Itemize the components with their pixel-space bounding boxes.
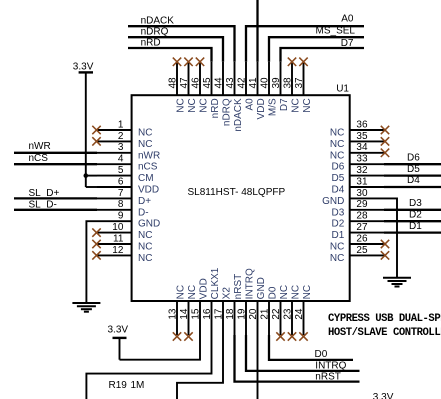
- pin 19 (INTRQ) bottom: [237, 268, 256, 335]
- svg-text:D3: D3: [332, 207, 345, 218]
- svg-text:nRD: nRD: [210, 98, 221, 118]
- wire nWR to pin 3: [14, 141, 97, 153]
- svg-text:9: 9: [118, 211, 124, 222]
- wire VDD pin 41 to top power (cut off): [256, 0, 258, 62]
- wire pin 20 GND to ground (cut off): [257, 335, 259, 399]
- pin 21 (D0) bottom: [260, 286, 279, 335]
- svg-text:39: 39: [271, 77, 282, 89]
- pin 1 (NC) left: [92, 119, 152, 138]
- wire 3.3V to pin 15 VDD: [120, 335, 201, 360]
- pin 26 (NC) right: [330, 233, 389, 252]
- svg-text:CM: CM: [138, 173, 154, 184]
- pin 46 (NC) top: [191, 58, 210, 113]
- svg-text:D5: D5: [407, 164, 420, 175]
- pin 4 (nCS) left: [97, 154, 158, 173]
- pin 6 (VDD) left: [97, 176, 159, 195]
- svg-text:VDD: VDD: [256, 98, 267, 119]
- svg-text:5: 5: [118, 165, 124, 176]
- svg-text:10: 10: [112, 222, 124, 233]
- pin 37 (NC) top: [294, 58, 313, 113]
- pin 12 (NC) left: [92, 245, 152, 264]
- wire D6 from pin: [384, 152, 441, 164]
- svg-text:19: 19: [237, 308, 248, 320]
- svg-text:D4: D4: [332, 185, 345, 196]
- svg-text:nWR: nWR: [29, 141, 51, 152]
- pin 41 (VDD) top: [248, 62, 267, 120]
- wire 3.3V to pin 5 CM: [86, 175, 97, 177]
- pin 16 (CLKX1) bottom: [202, 267, 221, 335]
- pin 33 (D6) right: [332, 154, 384, 173]
- svg-text:41: 41: [248, 77, 259, 89]
- pin 32 (D5) right: [332, 165, 384, 184]
- svg-text:1: 1: [118, 119, 124, 130]
- svg-text:42: 42: [237, 77, 248, 89]
- wire D2 from pin: [384, 209, 441, 221]
- wire nRST from pin 18: [235, 335, 360, 382]
- power 3.3V (top-left): [73, 61, 94, 187]
- wire pin 17 X2 to crystal (cut off): [177, 335, 223, 399]
- svg-text:NC: NC: [279, 285, 290, 299]
- svg-text:NC: NC: [138, 139, 152, 150]
- svg-text:15: 15: [191, 308, 202, 320]
- svg-text:NC: NC: [138, 230, 152, 241]
- svg-text:NC: NC: [176, 98, 187, 112]
- svg-text:D6: D6: [407, 152, 420, 163]
- svg-text:22: 22: [271, 308, 282, 320]
- svg-text:D2: D2: [409, 209, 422, 220]
- svg-text:47: 47: [179, 77, 190, 89]
- wire SL_D+ to pin 7: [14, 188, 97, 199]
- wire D4 from pin: [384, 175, 441, 187]
- pin 45 (nRD) top: [202, 62, 221, 119]
- svg-text:NC: NC: [138, 242, 152, 253]
- svg-text:D1: D1: [409, 221, 422, 232]
- svg-text:nRST: nRST: [233, 274, 244, 300]
- pin 30 (GND) right: [322, 188, 384, 207]
- svg-text:VDD: VDD: [138, 185, 159, 196]
- pin 7 (D+) left: [97, 188, 151, 207]
- pin 27 (D1) right: [332, 222, 384, 241]
- wire D1 from pin: [384, 221, 441, 233]
- svg-text:nRST: nRST: [315, 371, 341, 382]
- svg-text:NC: NC: [138, 253, 152, 264]
- svg-text:D2: D2: [332, 219, 345, 230]
- pin 40 (M/S) top: [260, 62, 279, 116]
- svg-text:nDRQ: nDRQ: [222, 98, 233, 126]
- svg-text:6: 6: [118, 176, 124, 187]
- svg-text:NC: NC: [330, 139, 344, 150]
- svg-text:nCS: nCS: [138, 162, 158, 173]
- pin 47 (NC) top: [179, 58, 198, 113]
- ground (right, pin 30): [383, 278, 411, 287]
- pin 18 (nRST) bottom: [225, 274, 244, 335]
- pin 48 (NC) top: [168, 58, 187, 113]
- pin 35 (NC) right: [330, 131, 389, 150]
- svg-text:26: 26: [356, 233, 368, 244]
- svg-text:38: 38: [283, 77, 294, 89]
- svg-text:MS_SEL: MS_SEL: [316, 26, 356, 37]
- svg-text:nDRQ: nDRQ: [141, 27, 169, 38]
- wire D3 from pin: [384, 198, 441, 210]
- svg-text:11: 11: [113, 233, 124, 244]
- svg-text:nRD: nRD: [141, 37, 161, 48]
- svg-text:NC: NC: [187, 98, 198, 112]
- pin 39 (D7) top: [271, 62, 290, 111]
- svg-text:29: 29: [356, 199, 368, 210]
- svg-text:SL_D-: SL_D-: [29, 199, 57, 210]
- svg-text:27: 27: [356, 222, 368, 233]
- svg-text:17: 17: [214, 308, 225, 320]
- wire pin 9 GND to ground: [86, 221, 97, 303]
- svg-text:14: 14: [179, 308, 190, 320]
- svg-text:37: 37: [294, 77, 305, 89]
- svg-text:16: 16: [202, 308, 213, 320]
- pin 15 (VDD) bottom: [191, 278, 210, 335]
- svg-text:INTRQ: INTRQ: [315, 361, 346, 372]
- svg-text:D7: D7: [279, 98, 290, 111]
- svg-text:30: 30: [356, 188, 368, 199]
- wire D0 from pin 21: [269, 335, 353, 360]
- svg-text:D1: D1: [332, 230, 345, 241]
- svg-text:D4: D4: [407, 175, 420, 186]
- svg-text:7: 7: [118, 188, 124, 199]
- svg-text:D0: D0: [315, 349, 328, 360]
- wire A0 to pin 42: [246, 14, 364, 62]
- svg-text:NC: NC: [330, 242, 344, 253]
- pin 8 (D-) left: [97, 199, 149, 218]
- svg-text:D7: D7: [341, 38, 354, 49]
- svg-text:D+: D+: [138, 196, 151, 207]
- pin 43 (nDACK) top: [225, 62, 244, 132]
- svg-text:CYPRESS USB DUAL-SPEED: CYPRESS USB DUAL-SPEED: [328, 313, 441, 325]
- pin 11 (NC) left: [92, 233, 152, 252]
- svg-text:A0: A0: [341, 14, 354, 25]
- svg-text:A0: A0: [245, 98, 256, 111]
- svg-text:M/S: M/S: [268, 98, 279, 116]
- svg-text:GND: GND: [256, 277, 267, 299]
- pin 2 (NC) left: [92, 131, 152, 150]
- pin 5 (CM) left: [97, 165, 154, 184]
- svg-text:35: 35: [356, 131, 368, 142]
- svg-text:INTRQ: INTRQ: [245, 268, 256, 299]
- pin 42 (A0) top: [237, 62, 256, 111]
- svg-text:SL_D+: SL_D+: [29, 188, 60, 199]
- svg-text:31: 31: [356, 176, 368, 187]
- label resistor R19 1M: [109, 380, 145, 391]
- svg-text:4: 4: [118, 154, 124, 165]
- pin 28 (D2) right: [332, 211, 384, 230]
- svg-text:45: 45: [202, 77, 213, 89]
- svg-text:20: 20: [248, 308, 259, 320]
- svg-text:33: 33: [356, 154, 368, 165]
- svg-text:NC: NC: [176, 285, 187, 299]
- svg-text:34: 34: [356, 142, 368, 153]
- svg-text:3.3V: 3.3V: [108, 325, 129, 336]
- svg-text:NC: NC: [291, 285, 302, 299]
- wire nDRQ bus to pin 44: [128, 27, 223, 62]
- wire pin 16 CLKX1 to crystal (cut off): [86, 335, 211, 399]
- svg-text:NC: NC: [302, 98, 313, 112]
- wire D5 from pin: [384, 164, 441, 176]
- IC U1 SL811HST-48LQFP body: [132, 95, 350, 301]
- pin 9 (GND) left: [97, 211, 160, 230]
- pin 10 (NC) left: [92, 222, 152, 241]
- svg-text:GND: GND: [322, 196, 344, 207]
- wire D7 to pin 39: [281, 38, 365, 62]
- pin 23 (NC) bottom: [283, 285, 302, 341]
- wire 3.3V to pin 6 VDD: [86, 186, 97, 188]
- svg-text:43: 43: [225, 77, 236, 89]
- svg-text:D5: D5: [332, 173, 345, 184]
- svg-text:3.3V: 3.3V: [373, 392, 394, 399]
- svg-text:nDACK: nDACK: [141, 16, 175, 27]
- wire nDACK bus to pin 43: [128, 16, 235, 62]
- svg-text:HOST/SLAVE CONTROLLER: HOST/SLAVE CONTROLLER: [328, 327, 441, 339]
- svg-text:3.3V: 3.3V: [73, 61, 94, 72]
- svg-text:nWR: nWR: [138, 150, 160, 161]
- svg-text:D0: D0: [268, 286, 279, 299]
- svg-text:nCS: nCS: [29, 153, 49, 164]
- wire INTRQ from pin 19: [246, 335, 360, 372]
- svg-text:3: 3: [118, 142, 124, 153]
- pin 31 (D4) right: [332, 176, 384, 195]
- svg-text:23: 23: [283, 308, 294, 320]
- svg-text:40: 40: [260, 77, 271, 89]
- pin 17 (X2) bottom: [214, 287, 233, 335]
- svg-text:SL811HST- 48LQPFP: SL811HST- 48LQPFP: [188, 187, 286, 198]
- svg-text:NC: NC: [187, 285, 198, 299]
- svg-text:12: 12: [112, 245, 124, 256]
- svg-text:25: 25: [356, 245, 368, 256]
- power 3.3V (bottom-left): [108, 325, 129, 360]
- svg-text:13: 13: [168, 308, 179, 320]
- svg-text:D-: D-: [138, 207, 149, 218]
- svg-text:2: 2: [118, 131, 124, 142]
- pin 20 (GND) bottom: [248, 277, 267, 335]
- svg-text:32: 32: [356, 165, 368, 176]
- pin 13 (NC) bottom: [168, 285, 187, 341]
- svg-text:1M: 1M: [131, 380, 145, 391]
- svg-text:44: 44: [214, 77, 225, 89]
- svg-text:24: 24: [294, 308, 305, 320]
- svg-text:NC: NC: [199, 98, 210, 112]
- wire pin 30 GND to ground (right): [384, 198, 397, 277]
- pin 34 (NC) right: [330, 142, 389, 161]
- svg-text:36: 36: [356, 119, 368, 130]
- svg-text:18: 18: [225, 308, 236, 320]
- svg-text:46: 46: [191, 77, 202, 89]
- svg-text:NC: NC: [330, 128, 344, 139]
- svg-text:NC: NC: [291, 98, 302, 112]
- pin 29 (D3) right: [332, 199, 384, 218]
- wire MS_SEL to pin 40: [269, 26, 364, 62]
- svg-text:CLKX1: CLKX1: [210, 267, 221, 299]
- ground (left, pin 9): [72, 303, 100, 312]
- pin 36 (NC) right: [330, 119, 389, 138]
- svg-text:NC: NC: [330, 253, 344, 264]
- wire nCS to pin 4: [14, 153, 97, 164]
- pin 22 (NC) bottom: [271, 285, 290, 341]
- pin 24 (NC) bottom: [294, 285, 313, 341]
- svg-text:48: 48: [168, 77, 179, 89]
- svg-text:R19: R19: [109, 380, 128, 391]
- svg-text:X2: X2: [222, 287, 233, 300]
- svg-text:NC: NC: [302, 285, 313, 299]
- svg-text:nDACK: nDACK: [233, 98, 244, 132]
- pin 38 (NC) top: [283, 58, 302, 113]
- wire nRD bus to pin 45: [128, 37, 212, 61]
- svg-text:U1: U1: [336, 84, 349, 95]
- svg-text:8: 8: [118, 199, 124, 210]
- svg-text:GND: GND: [138, 219, 160, 230]
- pin 44 (nDRQ) top: [214, 62, 233, 126]
- svg-text:VDD: VDD: [199, 278, 210, 299]
- svg-text:28: 28: [356, 211, 368, 222]
- wire SL_D- to pin 8: [14, 199, 97, 210]
- svg-text:D3: D3: [409, 198, 422, 209]
- pin 25 (NC) right: [330, 245, 389, 264]
- svg-text:NC: NC: [138, 128, 152, 139]
- svg-text:NC: NC: [330, 150, 344, 161]
- junction node 3.3V/CM: [84, 173, 89, 178]
- svg-text:D6: D6: [332, 162, 345, 173]
- pin 3 (nWR) left: [97, 142, 160, 161]
- svg-text:21: 21: [260, 308, 271, 320]
- pin 14 (NC) bottom: [179, 285, 198, 341]
